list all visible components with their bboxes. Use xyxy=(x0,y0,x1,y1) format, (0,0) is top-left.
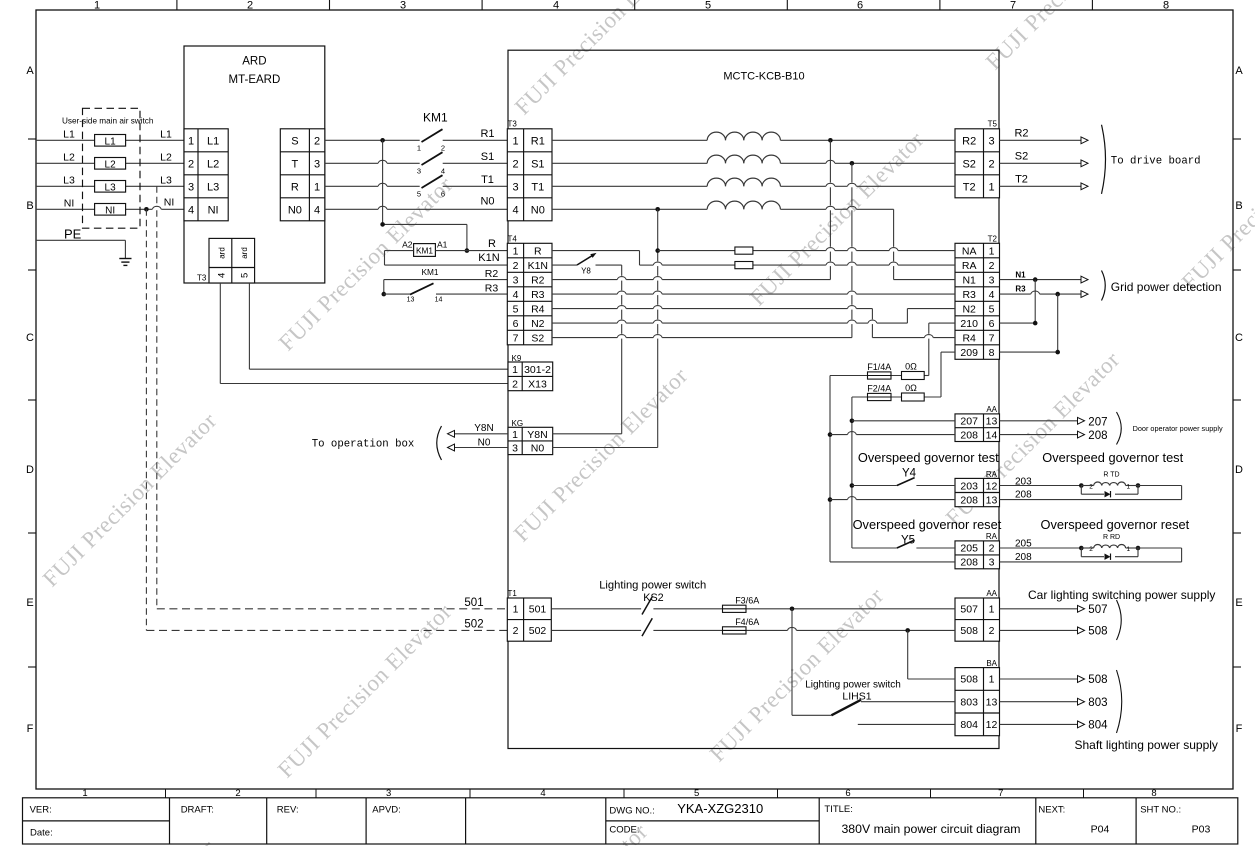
terminal block KG xyxy=(508,419,553,455)
node R3 out tap xyxy=(1055,292,1060,297)
svg-text:803: 803 xyxy=(1088,697,1107,709)
svg-text:L2: L2 xyxy=(105,159,117,170)
svg-text:804: 804 xyxy=(1088,720,1108,732)
svg-text:R RD: R RD xyxy=(1103,534,1120,541)
svg-text:3: 3 xyxy=(314,158,320,170)
ground xyxy=(119,259,131,266)
svg-text:L1: L1 xyxy=(63,129,75,141)
svg-text:208: 208 xyxy=(1088,430,1107,442)
wire R1 internal xyxy=(552,139,955,141)
wire 209 to fuse F2 xyxy=(941,352,955,397)
wire aux 14 to T4-4 R3 xyxy=(436,293,507,295)
svg-text:3: 3 xyxy=(188,181,194,193)
node N0 tap xyxy=(655,207,660,212)
resistor RA xyxy=(735,262,753,269)
terminal block BA xyxy=(955,659,1000,736)
node NA junction xyxy=(655,248,660,253)
svg-text:507: 507 xyxy=(960,604,978,616)
svg-text:Door operator power supply: Door operator power supply xyxy=(1133,424,1223,433)
wire 502 to AA 508 xyxy=(653,627,955,630)
wire R2 out xyxy=(1000,137,1089,144)
wire S to KM1 pole1 xyxy=(325,139,420,141)
svg-text:Date:: Date: xyxy=(30,827,53,838)
wire S2 internal xyxy=(552,335,852,338)
svg-text:L3: L3 xyxy=(63,175,75,187)
svg-text:5: 5 xyxy=(513,303,519,315)
switch KS2 pole1 xyxy=(642,597,652,615)
svg-text:T1: T1 xyxy=(508,589,518,598)
breaker pole L2 xyxy=(95,158,126,171)
svg-text:E: E xyxy=(26,597,33,609)
svg-text:1: 1 xyxy=(989,245,995,257)
svg-text:L2: L2 xyxy=(160,152,172,164)
switch LIHS1 xyxy=(831,700,861,716)
svg-text:804: 804 xyxy=(960,719,978,731)
ARD unit MT-EARD xyxy=(184,46,325,283)
svg-text:MCTC-KCB-B10: MCTC-KCB-B10 xyxy=(723,71,804,83)
svg-text:0Ω: 0Ω xyxy=(905,362,917,372)
title block xyxy=(23,798,1238,844)
svg-text:2: 2 xyxy=(1089,546,1093,553)
fuse F4/6A xyxy=(723,617,760,634)
svg-text:2: 2 xyxy=(513,625,519,637)
svg-text:MT-EARD: MT-EARD xyxy=(229,74,281,86)
svg-text:L3: L3 xyxy=(207,181,219,193)
svg-text:4: 4 xyxy=(441,167,445,176)
contactor KM1 pole 1-2 xyxy=(417,129,445,152)
svg-text:N0: N0 xyxy=(288,204,302,216)
svg-text:2: 2 xyxy=(247,0,253,12)
svg-text:ard: ard xyxy=(240,247,249,259)
svg-text:Overspeed governor reset: Overspeed governor reset xyxy=(853,517,1002,532)
svg-text:803: 803 xyxy=(960,696,978,708)
node bus tap xyxy=(380,138,385,143)
svg-text:3: 3 xyxy=(400,0,406,12)
svg-text:5: 5 xyxy=(989,303,995,315)
svg-text:S2: S2 xyxy=(962,158,975,170)
svg-text:5: 5 xyxy=(705,0,711,12)
node coil A1 junction xyxy=(465,248,470,253)
svg-text:208: 208 xyxy=(960,494,978,506)
svg-text:2: 2 xyxy=(1089,483,1093,490)
brace car lighting xyxy=(1117,600,1122,640)
svg-text:S: S xyxy=(291,135,298,147)
svg-text:N0: N0 xyxy=(480,196,494,208)
svg-text:8: 8 xyxy=(1163,0,1169,12)
terminal block T5 xyxy=(955,120,1000,198)
wire bus A 208 xyxy=(829,376,831,562)
wire 208 line xyxy=(830,432,955,435)
contactor KM1 aux 13-14 xyxy=(407,283,443,303)
resistor 0ohm F1 xyxy=(902,362,925,380)
svg-text:1: 1 xyxy=(988,181,994,193)
thermistor RTD xyxy=(1079,472,1140,498)
svg-text:1: 1 xyxy=(989,604,995,616)
svg-text:AA: AA xyxy=(986,589,997,598)
svg-text:KM1: KM1 xyxy=(416,245,433,255)
wire coil A1 to T4-1 R xyxy=(435,250,507,252)
svg-text:D: D xyxy=(1235,464,1243,476)
svg-text:1: 1 xyxy=(1126,483,1130,490)
svg-text:B: B xyxy=(26,200,33,212)
node NI junction xyxy=(144,207,149,212)
svg-text:508: 508 xyxy=(960,674,978,686)
node N1 out tap xyxy=(1033,277,1038,282)
svg-text:207: 207 xyxy=(1088,416,1107,428)
terminal block T4 xyxy=(507,235,552,345)
svg-text:L2: L2 xyxy=(207,158,219,170)
svg-text:R4: R4 xyxy=(962,332,976,344)
svg-text:2: 2 xyxy=(988,158,994,170)
svg-text:1: 1 xyxy=(512,135,518,147)
wire 501 drop to LIHS1 xyxy=(792,609,831,716)
terminal block T2 xyxy=(955,235,1000,360)
wire coil supply bus xyxy=(383,140,467,250)
controller MCTC-KCB-B10 xyxy=(508,50,999,748)
svg-text:2: 2 xyxy=(989,625,995,637)
wire 501 to KS2 xyxy=(551,608,641,610)
node 210 junction xyxy=(1033,321,1038,326)
wire 501 to AA 507 xyxy=(653,608,955,610)
wire R1 to T3-1 xyxy=(443,139,508,141)
svg-text:12: 12 xyxy=(986,719,998,731)
terminal block ard T3 xyxy=(209,238,255,283)
svg-text:T2: T2 xyxy=(988,235,998,244)
svg-text:8: 8 xyxy=(989,347,995,359)
svg-text:208: 208 xyxy=(960,557,978,569)
wire 207 line xyxy=(852,420,955,422)
svg-text:R3: R3 xyxy=(531,289,545,301)
svg-text:User-side main air switch: User-side main air switch xyxy=(62,116,154,125)
svg-text:12: 12 xyxy=(986,480,998,492)
inductor N0 filter xyxy=(707,201,780,209)
wire N0 to T3-4 xyxy=(325,206,508,209)
svg-text:2: 2 xyxy=(512,378,518,390)
node 508 tap xyxy=(905,628,910,633)
svg-text:502: 502 xyxy=(464,619,483,631)
svg-text:F3/6A: F3/6A xyxy=(735,595,759,605)
wire L3 input xyxy=(36,185,184,187)
wire ard-5 to K9 301-2 xyxy=(249,283,508,369)
wire NI input xyxy=(36,206,184,209)
wire 803 out xyxy=(1000,698,1085,705)
svg-text:T3: T3 xyxy=(197,274,207,283)
wire N0 internal xyxy=(552,206,894,209)
svg-text:380V main power circuit diagra: 380V main power circuit diagram xyxy=(841,822,1020,836)
svg-text:4: 4 xyxy=(513,289,519,301)
wire N0 out xyxy=(448,444,508,451)
svg-text:4: 4 xyxy=(540,788,545,799)
svg-text:F2/4A: F2/4A xyxy=(867,384,891,394)
wire R3 to 209 xyxy=(1000,294,1058,352)
svg-text:3: 3 xyxy=(417,167,421,176)
wire 501 tap from L3 (dashed) xyxy=(157,186,508,609)
wire N1 to 210 xyxy=(1000,280,1036,324)
contactor coil KM1 xyxy=(414,244,436,257)
svg-text:T5: T5 xyxy=(988,120,998,129)
node R1 tap xyxy=(828,138,833,143)
wire Y4 to RA 203 xyxy=(916,485,955,487)
svg-text:4: 4 xyxy=(553,0,559,12)
wire 502 to KS2 xyxy=(551,629,641,631)
wire S1 to T3-2 xyxy=(443,162,508,164)
node Y4 tap xyxy=(850,483,855,488)
svg-text:203: 203 xyxy=(960,480,978,492)
svg-text:5: 5 xyxy=(239,273,250,278)
svg-text:3: 3 xyxy=(989,557,995,569)
svg-text:Overspeed governor test: Overspeed governor test xyxy=(1042,450,1183,465)
inductor R1 filter xyxy=(707,132,780,140)
svg-text:501: 501 xyxy=(464,597,483,609)
svg-text:208: 208 xyxy=(1015,552,1032,563)
svg-text:R2: R2 xyxy=(531,274,545,286)
svg-text:R: R xyxy=(534,245,542,257)
svg-text:T2: T2 xyxy=(1015,174,1028,186)
svg-text:13: 13 xyxy=(407,297,415,304)
wire ard-4 to K9 X13 xyxy=(220,283,508,384)
svg-text:VER:: VER: xyxy=(30,804,52,815)
fuse F3/6A xyxy=(723,595,760,612)
svg-text:1: 1 xyxy=(513,245,519,257)
svg-text:F1/4A: F1/4A xyxy=(867,362,891,372)
svg-text:L2: L2 xyxy=(63,152,75,164)
wire R to KM1 pole3 xyxy=(325,183,420,186)
wire 210 to fuse F1 xyxy=(929,323,955,375)
svg-text:L1: L1 xyxy=(160,129,172,141)
node 501 tap xyxy=(790,607,795,612)
wire 203 return loop xyxy=(1000,486,1182,500)
svg-text:A: A xyxy=(1235,65,1243,77)
svg-text:NEXT:: NEXT: xyxy=(1038,804,1065,815)
wire F2 branch xyxy=(852,396,941,398)
wire coil A2 to T4-2 K1N xyxy=(385,251,508,266)
svg-text:D: D xyxy=(26,464,34,476)
wire 205 out xyxy=(1000,547,1082,549)
svg-text:KG: KG xyxy=(512,419,524,428)
svg-text:Car lighting switching power: Car lighting switching power supply xyxy=(1028,588,1215,602)
wire S2 out xyxy=(1000,160,1089,167)
svg-text:208: 208 xyxy=(1015,490,1032,501)
wire N0 to N1 terminal xyxy=(894,209,955,279)
terminal block AA lighting xyxy=(955,589,1000,641)
svg-text:1: 1 xyxy=(989,674,995,686)
svg-text:1: 1 xyxy=(82,788,87,799)
svg-text:DRAFT:: DRAFT: xyxy=(181,804,214,815)
svg-text:PE: PE xyxy=(64,227,82,242)
user-side main air switch enclosure xyxy=(83,108,141,228)
svg-text:3: 3 xyxy=(512,181,518,193)
wire Y5 contact xyxy=(852,547,897,549)
terminal block ARD output xyxy=(280,129,325,221)
svg-text:L3: L3 xyxy=(160,175,172,187)
svg-text:1: 1 xyxy=(1126,546,1130,553)
wire 205 return loop xyxy=(1000,548,1182,562)
wire 804 out xyxy=(1000,721,1085,728)
brace operation box xyxy=(437,426,442,460)
svg-text:2: 2 xyxy=(235,788,240,799)
svg-text:S1: S1 xyxy=(481,151,494,163)
terminal block RA test xyxy=(955,470,1000,507)
wire 804 xyxy=(858,723,955,725)
wire T1 to T3-3 xyxy=(443,185,508,187)
svg-text:F: F xyxy=(1236,723,1243,735)
svg-text:3: 3 xyxy=(386,788,391,799)
wire 208 reset line xyxy=(830,561,955,563)
svg-text:S2: S2 xyxy=(1015,151,1028,163)
svg-text:2: 2 xyxy=(512,158,518,170)
svg-text:Lighting power switch: Lighting power switch xyxy=(805,680,901,691)
wire 508 shaft out xyxy=(1000,676,1085,683)
wire S1 internal xyxy=(552,160,955,163)
svg-text:209: 209 xyxy=(960,347,978,359)
switch KS2 pole2 xyxy=(642,618,652,636)
svg-text:DWG NO.:: DWG NO.: xyxy=(609,806,654,817)
svg-text:1: 1 xyxy=(513,604,519,616)
svg-text:6: 6 xyxy=(845,788,850,799)
svg-text:1: 1 xyxy=(512,364,518,376)
svg-text:R2: R2 xyxy=(485,268,499,280)
svg-text:4: 4 xyxy=(512,204,518,216)
svg-text:T1: T1 xyxy=(531,181,544,193)
svg-text:R: R xyxy=(291,181,299,193)
svg-text:14: 14 xyxy=(986,429,998,441)
svg-text:P03: P03 xyxy=(1192,824,1211,836)
svg-text:C: C xyxy=(26,332,34,344)
svg-text:R3: R3 xyxy=(962,289,976,301)
svg-text:N0: N0 xyxy=(478,437,491,448)
svg-text:N2: N2 xyxy=(531,318,545,330)
svg-text:NI: NI xyxy=(105,205,115,216)
terminal block AA door xyxy=(955,405,1000,441)
svg-text:T1: T1 xyxy=(481,174,494,186)
wire R4 internal xyxy=(552,306,955,338)
svg-text:P04: P04 xyxy=(1091,824,1110,836)
node 208 test tap xyxy=(828,497,833,502)
svg-text:NI: NI xyxy=(208,204,219,216)
svg-text:0Ω: 0Ω xyxy=(905,383,917,393)
svg-text:R: R xyxy=(488,238,496,250)
svg-text:F: F xyxy=(27,723,34,735)
fuse F2/4A xyxy=(867,384,891,401)
thermistor RRD xyxy=(1079,534,1140,560)
svg-text:R1: R1 xyxy=(480,128,494,140)
svg-text:13: 13 xyxy=(986,416,998,428)
node 209 junction xyxy=(1055,350,1060,355)
svg-text:N0: N0 xyxy=(531,443,545,455)
brace grid power xyxy=(1102,271,1106,301)
terminal block K9 xyxy=(508,354,553,391)
svg-text:7: 7 xyxy=(998,788,1003,799)
svg-text:4: 4 xyxy=(188,204,194,216)
svg-text:L1: L1 xyxy=(105,136,117,147)
wire L1 input xyxy=(36,139,184,141)
svg-text:A2: A2 xyxy=(402,240,413,250)
wire N2 internal xyxy=(552,309,955,324)
svg-text:13: 13 xyxy=(986,494,998,506)
wire K1N to Y8 xyxy=(552,264,577,266)
svg-text:Overspeed governor test: Overspeed governor test xyxy=(858,450,999,465)
svg-text:4: 4 xyxy=(989,289,995,301)
terminal block T1 xyxy=(507,589,551,641)
wire R2 from T4-3 xyxy=(384,280,508,295)
svg-text:RA: RA xyxy=(962,260,977,272)
svg-text:2: 2 xyxy=(513,260,519,272)
svg-text:RA: RA xyxy=(986,470,998,479)
wire PE xyxy=(36,240,125,258)
svg-text:6: 6 xyxy=(989,318,995,330)
svg-text:APVD:: APVD: xyxy=(372,804,401,815)
resistor NA xyxy=(735,247,753,254)
svg-text:AA: AA xyxy=(986,405,997,414)
svg-text:507: 507 xyxy=(1088,604,1107,616)
svg-text:4: 4 xyxy=(217,273,228,278)
terminal block T3 xyxy=(507,120,552,221)
brace door operator xyxy=(1117,412,1122,445)
svg-text:Y8: Y8 xyxy=(581,266,591,275)
wire 208 out xyxy=(1000,431,1085,438)
svg-text:508: 508 xyxy=(960,625,978,637)
svg-text:7: 7 xyxy=(989,332,995,344)
svg-text:YKA-XZG2310: YKA-XZG2310 xyxy=(677,801,763,816)
svg-text:KM1: KM1 xyxy=(421,267,438,277)
contactor KM1 pole 5-6 xyxy=(417,175,445,198)
wire N0 drop to NA and KG N0 xyxy=(657,209,659,447)
svg-text:301-2: 301-2 xyxy=(524,364,551,376)
svg-text:3: 3 xyxy=(988,135,994,147)
wire NA line xyxy=(658,248,955,251)
wire L2 input xyxy=(36,162,184,164)
node 208 tap xyxy=(828,432,833,437)
svg-text:C: C xyxy=(1235,332,1243,344)
svg-text:1: 1 xyxy=(512,429,518,441)
svg-text:3: 3 xyxy=(512,443,518,455)
svg-text:7: 7 xyxy=(513,332,519,344)
wire R2 internal xyxy=(552,277,830,280)
svg-text:F4/6A: F4/6A xyxy=(735,617,759,627)
svg-text:BA: BA xyxy=(986,659,997,668)
svg-text:6: 6 xyxy=(513,318,519,330)
svg-text:KS2: KS2 xyxy=(643,592,663,604)
svg-text:R1: R1 xyxy=(531,135,545,147)
svg-text:2: 2 xyxy=(188,158,194,170)
svg-text:1: 1 xyxy=(188,135,194,147)
wire KG N0 internal xyxy=(553,447,658,449)
inductor T1 filter xyxy=(707,178,780,186)
svg-text:NA: NA xyxy=(962,245,977,257)
svg-text:508: 508 xyxy=(1088,626,1107,638)
node S1 tap xyxy=(850,161,855,166)
svg-text:R4: R4 xyxy=(531,303,545,315)
wire Y4 contact xyxy=(852,485,897,487)
svg-text:N0: N0 xyxy=(531,204,545,216)
svg-text:A: A xyxy=(26,65,34,77)
wire aux 13 contact xyxy=(384,293,410,295)
svg-text:3: 3 xyxy=(513,274,519,286)
svg-text:NI: NI xyxy=(164,197,175,209)
svg-text:L1: L1 xyxy=(207,135,219,147)
terminal block RA reset xyxy=(955,532,1000,569)
svg-text:210: 210 xyxy=(960,318,978,330)
wire N1 out xyxy=(1000,276,1089,283)
node aux corner xyxy=(382,292,387,297)
svg-text:5: 5 xyxy=(417,190,421,199)
svg-text:NI: NI xyxy=(64,198,75,210)
svg-text:5: 5 xyxy=(694,788,699,799)
svg-text:7: 7 xyxy=(1010,0,1016,12)
node bus corner xyxy=(380,222,385,227)
svg-text:6: 6 xyxy=(441,190,445,199)
svg-text:4: 4 xyxy=(314,204,320,216)
